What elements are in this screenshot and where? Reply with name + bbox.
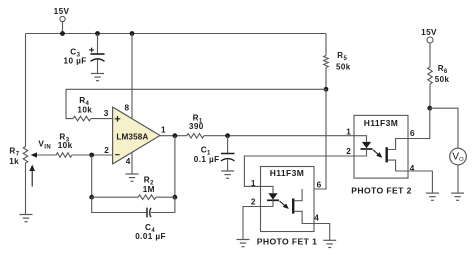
PF1 photoFET <box>293 189 314 224</box>
optocoupler U2 H11F3M box <box>261 167 315 232</box>
svg-text:1: 1 <box>161 125 166 134</box>
wire node-A to PF1 pin6 <box>314 89 326 189</box>
wire C3 bottom <box>97 60 99 74</box>
PF2 pin label 1 <box>346 128 351 137</box>
resistor R4 <box>73 96 92 121</box>
svg-text:H11F3M: H11F3M <box>364 118 399 128</box>
wire PF2 pin2 to PF1 pin1 <box>244 156 354 186</box>
svg-text:390: 390 <box>189 122 204 131</box>
junction dot output-node <box>173 133 178 138</box>
wire node to PF2 pin6 <box>408 108 430 138</box>
resistor R6 <box>428 64 450 84</box>
PF2 photoFET <box>387 139 408 172</box>
wire output down <box>174 136 176 198</box>
resistor R1 <box>187 113 204 138</box>
svg-text:1: 1 <box>251 179 256 188</box>
svg-text:4: 4 <box>410 164 415 173</box>
PF1 pin label 4 <box>314 214 319 223</box>
wire 15V terminal stem <box>62 22 64 34</box>
capacitor C4 <box>135 208 166 241</box>
resistor R3 <box>56 133 73 158</box>
junction dot inverting-node <box>89 153 94 158</box>
wire VO to ground <box>457 165 459 193</box>
PF2 pin label 6 <box>410 129 415 138</box>
wire right 15V stem <box>429 43 431 67</box>
wire node to VO <box>430 108 458 148</box>
label VIN <box>38 139 51 150</box>
wire C4 left path <box>92 197 147 212</box>
ground PF1 pin2 <box>237 240 250 247</box>
wire R5 to node <box>325 68 327 90</box>
wire opamp output <box>160 135 187 137</box>
ground VO <box>451 193 464 200</box>
wire R1 to PF2 pin1 <box>204 135 354 137</box>
svg-text:2: 2 <box>346 147 351 156</box>
wire node-A to R4 <box>66 89 326 118</box>
wire PF1 pin4 to ground <box>314 224 330 241</box>
PF2 pin label 2 <box>346 147 351 156</box>
wire C1 bottom <box>227 159 229 171</box>
pin label 8 <box>125 103 130 112</box>
junction dot R2-left <box>89 195 94 200</box>
wire PF2 pin4 to ground <box>408 171 432 193</box>
label PHOTO FET 1 <box>257 236 318 246</box>
svg-text:15V: 15V <box>421 28 437 37</box>
resistor R7 potentiometer <box>9 147 56 187</box>
wire R2 left lead <box>92 196 139 198</box>
15V supply terminal right <box>421 28 437 43</box>
junction dot rail-pin8 <box>130 31 135 36</box>
svg-text:4: 4 <box>314 214 319 223</box>
pin label 2 <box>104 146 109 155</box>
ground op-amp pin4 <box>126 174 139 181</box>
PF1 pin label 1 <box>251 179 256 188</box>
wire pin8 stem <box>131 34 133 119</box>
ground PF1 pin4 <box>323 240 336 247</box>
PF1 LED <box>261 186 280 206</box>
junction dot rail-left <box>60 31 65 36</box>
svg-text:2: 2 <box>251 197 256 206</box>
svg-text:0.01 µF: 0.01 µF <box>135 232 166 241</box>
svg-text:LM358A: LM358A <box>116 133 148 142</box>
wire R7 to ground <box>25 163 27 215</box>
wire C1 top <box>227 136 229 154</box>
svg-text:1: 1 <box>346 128 351 137</box>
wire pin4 stem <box>131 152 133 174</box>
svg-text:15V: 15V <box>54 7 70 16</box>
wire left rail down <box>25 34 27 147</box>
label PHOTO FET 2 <box>351 185 412 195</box>
svg-text:50k: 50k <box>336 62 351 71</box>
svg-text:0.1 µF: 0.1 µF <box>194 155 220 164</box>
optocoupler U3 H11F3M box <box>354 115 408 178</box>
resistor R5 <box>324 51 351 71</box>
wire R6 to node <box>429 84 431 108</box>
pin label 1 <box>161 125 166 134</box>
pin label 4 <box>126 157 131 166</box>
ground C3 <box>91 74 104 81</box>
junction dot C1-node <box>225 133 230 138</box>
op-amp U1 LM358A <box>113 107 160 164</box>
junction dot node-A <box>324 87 329 92</box>
pin label 3 <box>104 109 109 118</box>
PF2 opto arrow <box>373 150 382 158</box>
capacitor C1 <box>194 145 235 164</box>
svg-text:2: 2 <box>104 146 109 155</box>
svg-text:4: 4 <box>126 157 131 166</box>
voltmeter VO <box>450 148 467 165</box>
svg-text:6: 6 <box>317 180 322 189</box>
wire inverting node down <box>91 155 93 197</box>
junction dot VO-node <box>427 106 432 111</box>
svg-text:3: 3 <box>104 109 109 118</box>
svg-text:H11F3M: H11F3M <box>270 168 305 178</box>
ground PF2 pin4 <box>426 193 439 200</box>
PF2 pin label 4 <box>410 164 415 173</box>
svg-text:1k: 1k <box>9 157 19 166</box>
15V supply terminal <box>54 7 70 21</box>
svg-text:50k: 50k <box>435 75 450 84</box>
svg-text:1M: 1M <box>143 185 155 194</box>
PF2 LED <box>354 136 373 156</box>
PF1 opto arrow <box>280 201 289 209</box>
svg-text:PHOTO FET 2: PHOTO FET 2 <box>351 185 412 195</box>
wire +15V rail <box>26 33 327 35</box>
ground R7 <box>20 215 33 222</box>
svg-text:10k: 10k <box>77 105 92 114</box>
svg-text:10 µF: 10 µF <box>64 57 87 66</box>
capacitor C3 <box>64 47 105 65</box>
ground C1 <box>221 171 234 178</box>
svg-text:8: 8 <box>125 103 130 112</box>
PF1 pin label 6 <box>317 180 322 189</box>
wire rail to R5 <box>325 34 327 56</box>
wire C3 top <box>97 34 99 55</box>
junction dot R2-right <box>173 195 178 200</box>
wire R3 to pin2 <box>72 154 113 156</box>
svg-text:6: 6 <box>410 129 415 138</box>
wire R4 to pin3 <box>91 118 113 120</box>
junction dot rail-C3 <box>95 31 100 36</box>
wire C4 right path <box>151 197 175 212</box>
svg-text:10k: 10k <box>58 141 73 150</box>
svg-text:PHOTO FET 1: PHOTO FET 1 <box>257 236 318 246</box>
resistor R2 <box>138 175 156 199</box>
wire R2 right lead <box>156 196 175 198</box>
PF1 pin label 2 <box>251 197 256 206</box>
wire PF1 pin2 to ground <box>243 207 261 240</box>
